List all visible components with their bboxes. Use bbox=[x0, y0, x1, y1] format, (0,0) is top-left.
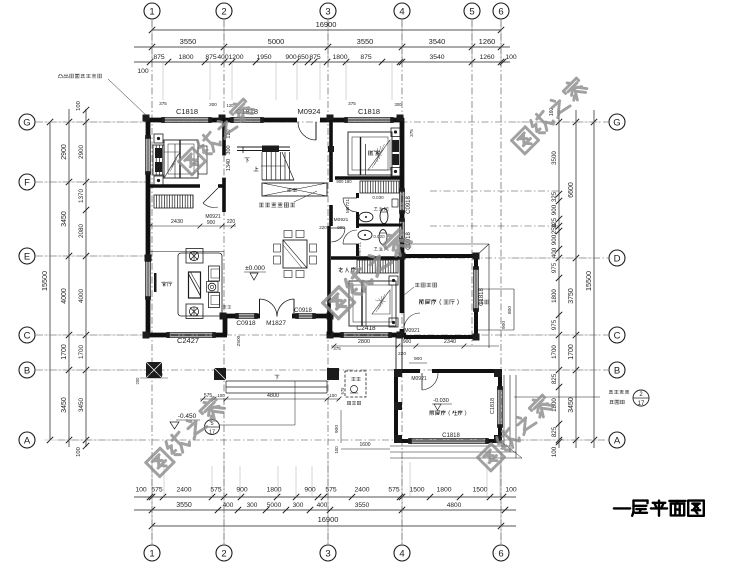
elder room top wall bbox=[331, 256, 402, 260]
svg-text:1260: 1260 bbox=[479, 37, 496, 46]
svg-text:900 180: 900 180 bbox=[336, 179, 352, 184]
bedroom2 bed bbox=[348, 132, 392, 175]
southwest pillar bbox=[146, 362, 162, 378]
svg-text:5000: 5000 bbox=[268, 37, 285, 46]
living room sofa group carpet bbox=[178, 253, 222, 316]
extension lines bottom bbox=[151, 460, 153, 544]
svg-text:325: 325 bbox=[551, 191, 558, 202]
bedroom1 wardrobe west bbox=[153, 145, 164, 175]
door M0721 bath1 bbox=[343, 197, 357, 199]
window C0918 bath upper bbox=[399, 190, 401, 212]
south steps bbox=[226, 380, 327, 382]
svg-text:2340: 2340 bbox=[444, 339, 456, 345]
grid bubble C bbox=[19, 327, 35, 343]
horizontal grid line B bbox=[36, 369, 608, 371]
wall dining vs elder room bbox=[327, 226, 331, 335]
svg-text:3550: 3550 bbox=[357, 37, 374, 46]
sofa bottom seat with plant bbox=[186, 304, 203, 319]
extension lines below annex bbox=[409, 462, 411, 497]
svg-text:M0921: M0921 bbox=[334, 217, 349, 223]
svg-text:550: 550 bbox=[155, 372, 163, 377]
svg-text:4000: 4000 bbox=[61, 288, 68, 304]
sofa side table bbox=[207, 282, 219, 293]
svg-text:800: 800 bbox=[507, 306, 513, 314]
svg-text:15500: 15500 bbox=[584, 271, 593, 291]
grid bubble 4 bbox=[394, 545, 410, 561]
vertical grid line 2 bbox=[223, 20, 225, 544]
svg-text:6: 6 bbox=[498, 6, 503, 17]
svg-text:825: 825 bbox=[551, 373, 558, 384]
grid bubble 2 bbox=[216, 3, 232, 19]
shoe cabinet label bbox=[223, 306, 231, 309]
svg-text:B: B bbox=[24, 365, 30, 376]
svg-text:M0921: M0921 bbox=[404, 328, 420, 334]
left dim fine bbox=[85, 109, 87, 447]
grid bubble G bbox=[19, 114, 35, 130]
svg-text:4800: 4800 bbox=[447, 502, 462, 509]
svg-text:C: C bbox=[614, 330, 621, 341]
svg-text:2400: 2400 bbox=[176, 487, 191, 494]
svg-text:900: 900 bbox=[236, 487, 248, 494]
window C1818 annex east2 bbox=[497, 388, 499, 426]
svg-text:3450: 3450 bbox=[78, 398, 85, 413]
svg-text:900: 900 bbox=[414, 356, 422, 362]
svg-text:1370: 1370 bbox=[78, 189, 85, 204]
vertical grid line 5 bbox=[471, 20, 473, 345]
svg-text:100: 100 bbox=[329, 393, 337, 398]
svg-text:3540: 3540 bbox=[429, 54, 444, 61]
door M0721 bath2 bbox=[343, 243, 357, 245]
svg-text:M0721: M0721 bbox=[345, 199, 350, 213]
svg-text:400: 400 bbox=[223, 502, 234, 509]
svg-text:375: 375 bbox=[333, 346, 341, 351]
window C0918 bath lower bbox=[399, 220, 401, 240]
vertical grid line 1 bbox=[151, 20, 153, 544]
svg-text:1260: 1260 bbox=[479, 54, 494, 61]
left dim total 15500 bbox=[49, 122, 51, 440]
entry recess walls bbox=[223, 314, 228, 335]
svg-text:C: C bbox=[24, 330, 31, 341]
vertical grid line 4 bbox=[401, 20, 403, 544]
svg-text:825: 825 bbox=[551, 426, 558, 437]
sofa right armchairs bbox=[209, 266, 220, 281]
svg-text:100: 100 bbox=[334, 446, 339, 454]
right exterior wall bbox=[400, 118, 405, 190]
south steps dims bbox=[200, 398, 340, 400]
top dim row total 16900 bbox=[152, 29, 501, 31]
svg-text:2900: 2900 bbox=[61, 144, 68, 160]
kitchen annex dims bbox=[340, 410, 342, 443]
svg-text:875: 875 bbox=[205, 54, 217, 61]
window C2418 bbox=[342, 332, 390, 334]
svg-text:900: 900 bbox=[304, 487, 316, 494]
curtain mark left wall bbox=[154, 273, 157, 292]
ramp east of annex bbox=[478, 288, 514, 290]
svg-text:5000: 5000 bbox=[267, 502, 282, 509]
interior wall bedroom1 south bbox=[150, 184, 200, 188]
svg-text:B: B bbox=[614, 365, 620, 376]
svg-text:220: 220 bbox=[227, 219, 236, 225]
svg-text:200: 200 bbox=[135, 377, 140, 385]
svg-text:1340: 1340 bbox=[226, 159, 232, 171]
svg-text:875: 875 bbox=[309, 54, 321, 61]
elder room bed bbox=[349, 281, 396, 326]
svg-text:M0924: M0924 bbox=[298, 107, 321, 116]
svg-text:700: 700 bbox=[145, 372, 153, 377]
drawing title bbox=[614, 501, 704, 516]
left dim floor spans bbox=[68, 109, 70, 447]
horizontal grid line D bbox=[404, 257, 608, 259]
bedroom1 bed bbox=[164, 140, 198, 178]
steps around kitchen annex bbox=[390, 445, 510, 447]
svg-text:-0.030: -0.030 bbox=[433, 398, 449, 404]
svg-text:1700: 1700 bbox=[568, 344, 575, 360]
svg-text:650: 650 bbox=[297, 54, 309, 61]
svg-text:300: 300 bbox=[395, 102, 403, 107]
stair direction labels bbox=[245, 158, 250, 162]
svg-text:3550: 3550 bbox=[180, 37, 197, 46]
svg-text:875: 875 bbox=[360, 54, 372, 61]
door M0921 elder to annex bbox=[403, 313, 405, 329]
window left bedroom bbox=[145, 137, 147, 173]
svg-text:6600: 6600 bbox=[568, 182, 575, 198]
svg-text:C1818: C1818 bbox=[479, 288, 485, 306]
svg-text:4800: 4800 bbox=[267, 393, 279, 399]
window C0918 right of entry bbox=[297, 313, 314, 315]
detail bubble 2/17 bbox=[633, 390, 649, 406]
window C1818 top-right bbox=[346, 117, 392, 119]
svg-text:2500: 2500 bbox=[236, 335, 242, 346]
bedroom2 walls bbox=[335, 176, 402, 180]
bedroom1 nightstands bbox=[154, 134, 163, 143]
annex eave outline bbox=[404, 243, 489, 245]
svg-text:17: 17 bbox=[209, 430, 215, 436]
svg-text:300: 300 bbox=[293, 502, 304, 509]
door M0924 entry arc bbox=[315, 122, 317, 140]
svg-text:4: 4 bbox=[399, 548, 404, 559]
svg-text:C1818: C1818 bbox=[442, 433, 460, 439]
svg-text:375: 375 bbox=[159, 101, 167, 106]
svg-text:400: 400 bbox=[217, 54, 229, 61]
vertical grid line 3 bbox=[327, 20, 329, 544]
dining table set bbox=[283, 240, 307, 268]
living room label bbox=[162, 282, 172, 287]
svg-text:C2418: C2418 bbox=[356, 325, 376, 332]
svg-text:C2427: C2427 bbox=[177, 336, 199, 345]
svg-text:100: 100 bbox=[135, 487, 147, 494]
svg-text:M0921: M0921 bbox=[411, 376, 427, 382]
elder room closet hatch bbox=[357, 260, 398, 273]
yard wall between annexes bbox=[395, 337, 397, 371]
grid bubble 6 bbox=[493, 545, 509, 561]
bottom dim row fine bbox=[134, 496, 516, 498]
vertical grid line 6 bbox=[500, 20, 502, 544]
interior wall bedroom1 east bbox=[222, 118, 226, 155]
svg-text:975: 975 bbox=[551, 262, 558, 273]
grid bubble A bbox=[19, 432, 35, 448]
grid bubble 5 bbox=[464, 3, 480, 19]
coffee table bbox=[189, 272, 201, 298]
bottom dim row spans bbox=[134, 509, 516, 511]
leader to detail bubble bbox=[514, 396, 600, 398]
grid bubble 2 bbox=[216, 545, 232, 561]
svg-text:C0918: C0918 bbox=[406, 196, 412, 214]
horizontal grid line E bbox=[36, 255, 146, 257]
extension lines right bbox=[510, 121, 600, 123]
svg-text:250: 250 bbox=[551, 223, 558, 234]
svg-text:15500: 15500 bbox=[40, 271, 49, 291]
watermark tuzhizhijia bbox=[322, 227, 413, 318]
stair treads bbox=[261, 152, 263, 180]
svg-text:C1818: C1818 bbox=[358, 107, 380, 116]
svg-text:100: 100 bbox=[217, 393, 225, 398]
south wall living room bbox=[146, 333, 168, 338]
svg-text:100: 100 bbox=[505, 487, 517, 494]
svg-text:5: 5 bbox=[469, 6, 474, 17]
annex dining labels bbox=[419, 299, 458, 304]
svg-text:3750: 3750 bbox=[568, 288, 575, 304]
svg-text:C1818: C1818 bbox=[490, 398, 496, 414]
svg-text:900: 900 bbox=[551, 204, 558, 215]
svg-text:375: 375 bbox=[348, 101, 356, 106]
svg-text:1: 1 bbox=[149, 548, 154, 559]
watermark tuzhizhijia bbox=[178, 97, 256, 175]
svg-text:3540: 3540 bbox=[429, 37, 446, 46]
svg-text:575: 575 bbox=[151, 487, 163, 494]
svg-text:400: 400 bbox=[317, 502, 328, 509]
svg-text:1800: 1800 bbox=[178, 54, 193, 61]
top dim row fine bbox=[134, 61, 510, 63]
svg-text:100: 100 bbox=[137, 68, 149, 75]
svg-text:2900: 2900 bbox=[78, 145, 85, 160]
svg-text:G: G bbox=[613, 117, 620, 128]
svg-text:E: E bbox=[24, 251, 30, 262]
svg-text:100: 100 bbox=[551, 446, 558, 457]
svg-text:1700: 1700 bbox=[78, 345, 85, 360]
annex corner columns bbox=[473, 253, 480, 260]
svg-text:1500: 1500 bbox=[472, 487, 487, 494]
svg-text:2800: 2800 bbox=[358, 339, 370, 345]
svg-text:900: 900 bbox=[334, 425, 340, 433]
svg-text:M0721: M0721 bbox=[357, 242, 362, 256]
svg-text:3550: 3550 bbox=[176, 502, 192, 509]
svg-text:±0.000: ±0.000 bbox=[245, 265, 265, 272]
bedroom2 label bbox=[369, 150, 380, 155]
right dim floor spans bbox=[575, 110, 577, 448]
svg-text:3: 3 bbox=[325, 548, 330, 559]
grid bubble E bbox=[19, 248, 35, 264]
svg-text:2080: 2080 bbox=[78, 224, 85, 239]
svg-text:1: 1 bbox=[149, 6, 154, 17]
closet strip between bedroom2 and bath bbox=[360, 181, 399, 193]
window C1818 top-left bbox=[163, 117, 210, 119]
svg-text:C0918: C0918 bbox=[236, 320, 256, 327]
svg-text:D: D bbox=[614, 253, 621, 264]
svg-text:C0918: C0918 bbox=[294, 308, 312, 314]
door M1827 double entry bbox=[259, 299, 261, 317]
closet hatch below bedroom1 bbox=[154, 195, 193, 208]
grid bubble 3 bbox=[320, 3, 336, 19]
window C1818 top-mid bbox=[232, 117, 262, 119]
step detail bubble 5/17 bbox=[205, 420, 220, 435]
svg-text:6: 6 bbox=[498, 548, 503, 559]
grid bubble 1 bbox=[144, 3, 160, 19]
svg-text:3450: 3450 bbox=[61, 211, 68, 227]
south porch columns bbox=[214, 368, 226, 380]
svg-text:3: 3 bbox=[325, 6, 330, 17]
window left living room bbox=[145, 260, 147, 298]
intermediate setting-out lines right bbox=[430, 190, 559, 192]
svg-text:100: 100 bbox=[76, 447, 82, 457]
corner columns bbox=[143, 115, 150, 122]
svg-text:400: 400 bbox=[551, 247, 558, 258]
svg-text:300: 300 bbox=[247, 502, 258, 509]
svg-text:0.030: 0.030 bbox=[372, 195, 384, 200]
svg-text:1800: 1800 bbox=[332, 54, 347, 61]
south wall elder room bbox=[328, 333, 342, 338]
sink and drain outside kitchen bbox=[345, 371, 366, 397]
stair landing rail bbox=[237, 146, 290, 148]
grid bubble F bbox=[19, 174, 35, 190]
svg-text:M1827: M1827 bbox=[266, 320, 286, 327]
grid bubble C bbox=[609, 327, 625, 343]
door elder room bbox=[331, 227, 345, 229]
watermark tuzhizhijia bbox=[477, 393, 555, 471]
svg-text:300: 300 bbox=[209, 102, 217, 107]
svg-text:1800: 1800 bbox=[436, 487, 451, 494]
svg-text:16900: 16900 bbox=[316, 20, 337, 29]
svg-text:1950: 1950 bbox=[256, 54, 271, 61]
svg-text:900: 900 bbox=[285, 54, 297, 61]
svg-text:100: 100 bbox=[76, 101, 82, 111]
svg-text:900: 900 bbox=[337, 225, 345, 230]
right dim total 15500 bbox=[593, 110, 595, 448]
dining annex east walls bbox=[402, 254, 476, 258]
door M0921 kitchen annex bbox=[421, 373, 423, 390]
svg-text:900: 900 bbox=[403, 339, 412, 345]
svg-text:0.020: 0.020 bbox=[373, 234, 385, 239]
window C2427 bbox=[168, 332, 214, 334]
horizontal grid line C bbox=[36, 334, 608, 336]
label wifi router bbox=[259, 203, 295, 207]
grid bubble 1 bbox=[144, 545, 160, 561]
svg-text:3450: 3450 bbox=[568, 397, 575, 413]
dim 2430 900 220 below bedroom1 bbox=[150, 225, 236, 227]
watermark tuzhizhijia bbox=[511, 76, 589, 154]
svg-text:1700: 1700 bbox=[61, 344, 68, 360]
window C1818 annex south bbox=[410, 438, 487, 440]
svg-text:G: G bbox=[23, 117, 30, 128]
svg-text:A: A bbox=[24, 435, 31, 446]
svg-text:1700: 1700 bbox=[551, 345, 558, 359]
svg-text:900: 900 bbox=[501, 321, 507, 329]
svg-text:2: 2 bbox=[221, 6, 226, 17]
svg-text:975: 975 bbox=[551, 319, 558, 330]
elder room label bbox=[339, 267, 356, 272]
grid bubble 6 bbox=[493, 3, 509, 19]
main house exterior walls bbox=[146, 118, 163, 123]
svg-text:100: 100 bbox=[505, 54, 517, 61]
grid bubble G bbox=[609, 114, 625, 130]
horizontal grid line G bbox=[36, 121, 608, 123]
grid bubble 4 bbox=[394, 3, 410, 19]
svg-text:3450: 3450 bbox=[61, 397, 68, 413]
svg-text:300: 300 bbox=[226, 145, 232, 154]
svg-text:1600: 1600 bbox=[359, 442, 370, 448]
grid bubble A bbox=[609, 432, 625, 448]
horizontal grid line F bbox=[36, 181, 150, 183]
window C1818 annex east bbox=[473, 268, 475, 310]
bath1 fixtures bbox=[359, 212, 373, 222]
window C0918 left of entry bbox=[237, 313, 256, 315]
svg-text:900: 900 bbox=[207, 220, 216, 226]
horizontal grid line A bbox=[58, 439, 608, 441]
svg-text:F: F bbox=[24, 177, 30, 188]
svg-text:1200: 1200 bbox=[228, 54, 243, 61]
svg-text:2430: 2430 bbox=[171, 219, 183, 225]
southwest dims bbox=[140, 377, 168, 379]
door M0921 bedroom1 bbox=[203, 188, 218, 203]
grid bubble B bbox=[19, 362, 35, 378]
grid bubble B bbox=[609, 362, 625, 378]
sofa top seat with plant bbox=[186, 249, 203, 264]
svg-text:3550: 3550 bbox=[355, 502, 370, 509]
svg-text:575: 575 bbox=[340, 387, 345, 395]
left exterior wall bbox=[146, 118, 151, 137]
dim below elder room bbox=[331, 345, 499, 347]
watermark tuzhizhijia bbox=[145, 395, 226, 476]
elder room nightstands bbox=[389, 276, 398, 285]
note protruding wall 20cm bbox=[58, 74, 101, 78]
svg-text:1800: 1800 bbox=[551, 289, 558, 303]
svg-text:575: 575 bbox=[325, 487, 337, 494]
svg-text:2: 2 bbox=[221, 548, 226, 559]
extension lines left bbox=[44, 121, 145, 123]
svg-text:375: 375 bbox=[409, 129, 414, 137]
svg-text:17: 17 bbox=[638, 401, 645, 407]
top dim row spans bbox=[134, 46, 510, 48]
svg-text:875: 875 bbox=[153, 54, 165, 61]
extension lines top bbox=[151, 20, 153, 66]
stair hall wall east bbox=[329, 120, 333, 147]
svg-text:2400: 2400 bbox=[354, 487, 369, 494]
svg-text:220: 220 bbox=[319, 225, 327, 230]
right dim fine bbox=[558, 110, 560, 448]
svg-text:-0.450: -0.450 bbox=[178, 413, 197, 420]
bath divider wall bbox=[357, 224, 402, 227]
grid bubble D bbox=[609, 250, 625, 266]
grid bubble 3 bbox=[320, 545, 336, 561]
svg-text:3500: 3500 bbox=[551, 151, 558, 165]
bath2 fixtures bbox=[358, 230, 372, 240]
svg-text:4000: 4000 bbox=[78, 289, 85, 304]
svg-text:900: 900 bbox=[551, 234, 558, 245]
stair bottom canopy box with X bbox=[262, 183, 327, 196]
svg-text:1500: 1500 bbox=[409, 487, 424, 494]
svg-text:1800: 1800 bbox=[266, 487, 281, 494]
bath corridor wall bbox=[356, 193, 359, 198]
svg-text:C1818: C1818 bbox=[176, 107, 198, 116]
svg-text:A: A bbox=[614, 435, 621, 446]
kitchen annex corner columns bbox=[394, 369, 402, 377]
kitchen annex walls bbox=[396, 369, 420, 373]
living room upper boundary line bbox=[150, 251, 224, 253]
bedroom2 nightstands and wardrobe cells bbox=[391, 128, 400, 137]
svg-text:575: 575 bbox=[388, 487, 400, 494]
svg-text:M0921: M0921 bbox=[205, 214, 221, 220]
svg-text:4: 4 bbox=[399, 6, 404, 17]
bottom dim row total 16900 bbox=[152, 525, 516, 527]
